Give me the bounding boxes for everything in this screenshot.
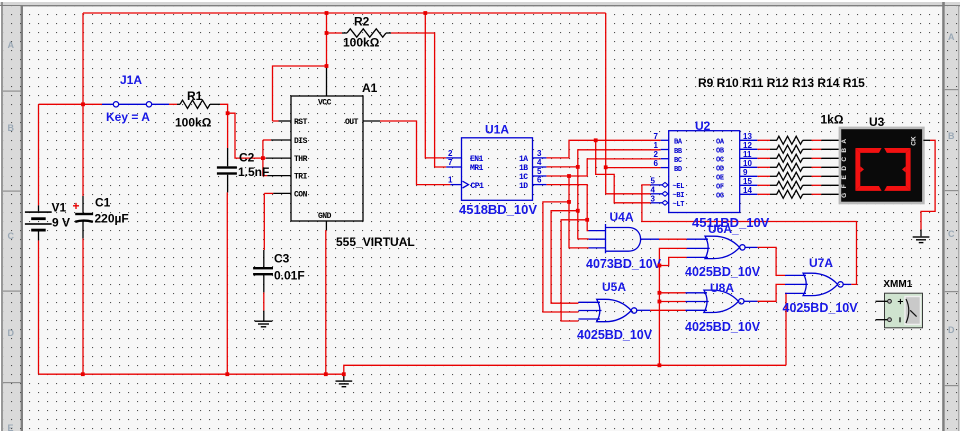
svg-text:OF: OF: [716, 184, 724, 192]
svg-text:OC: OC: [716, 157, 724, 165]
svg-text:U1A: U1A: [485, 123, 509, 137]
svg-text:4025BD_10V: 4025BD_10V: [685, 320, 761, 334]
svg-text:GND: GND: [318, 212, 332, 221]
svg-text:BC: BC: [674, 157, 682, 165]
multimeter XMM1: [876, 279, 923, 328]
wire 1B branch down to U4A input2: [578, 167, 589, 239]
gate U5A 4025BD NOR: [577, 280, 653, 342]
wire 1B to BB: [546, 150, 660, 167]
svg-text:CON: CON: [294, 191, 308, 200]
svg-text:BB: BB: [674, 148, 683, 156]
capacitor C1: [73, 196, 129, 239]
right ruler strip: [942, 2, 959, 431]
svg-text:4518BD_10V: 4518BD_10V: [459, 202, 537, 217]
svg-text:OD: OD: [716, 166, 724, 174]
ground below U3: [913, 230, 930, 244]
svg-text:U4A: U4A: [610, 210, 634, 224]
svg-text:220µF: 220µF: [95, 212, 129, 226]
svg-text:U3: U3: [869, 115, 885, 129]
svg-text:6: 6: [654, 159, 659, 168]
svg-text:~EL: ~EL: [673, 183, 685, 191]
svg-text:THR: THR: [294, 155, 308, 164]
svg-text:V1: V1: [52, 201, 67, 215]
resistor R2: [342, 15, 391, 50]
svg-text:OG: OG: [716, 193, 724, 201]
wire 1B loop to U5A input1: [551, 211, 578, 304]
wire ground bus step and right section: [344, 365, 786, 374]
wire trunk to U8A input2: [659, 301, 685, 303]
svg-text:DIS: DIS: [294, 137, 308, 146]
svg-text:1: 1: [448, 176, 453, 185]
svg-text:7: 7: [448, 158, 453, 167]
svg-text:3: 3: [651, 194, 656, 203]
svg-text:B: B: [841, 148, 848, 153]
wire CON to C3: [264, 193, 273, 250]
svg-text:0.01F: 0.01F: [274, 269, 305, 283]
svg-text:~BI: ~BI: [673, 192, 685, 200]
op-amp/timer A1 555 box: [266, 67, 415, 250]
wire U6A out to U7A input1: [757, 247, 785, 275]
svg-text:F: F: [841, 184, 848, 188]
svg-text:BD: BD: [674, 166, 682, 174]
svg-text:G: G: [841, 193, 848, 198]
svg-text:15: 15: [743, 177, 752, 186]
svg-text:100kΩ: 100kΩ: [343, 36, 380, 50]
svg-text:2: 2: [448, 149, 453, 158]
svg-text:1B: 1B: [519, 164, 528, 173]
resistor R1: [169, 89, 220, 130]
wire OUT to CP1: [380, 121, 450, 185]
svg-text:A: A: [841, 139, 848, 144]
top ruler bar: [0, 0, 960, 6]
wire R1 right to C2/THR junction: [220, 104, 266, 158]
resistors R9-R15 ladder: [698, 76, 865, 198]
svg-text:1A: 1A: [519, 155, 528, 164]
svg-text:OA: OA: [716, 139, 725, 147]
svg-text:C2: C2: [239, 151, 255, 165]
svg-text:6: 6: [537, 176, 542, 185]
gate U6A 4025BD NOR: [685, 222, 761, 279]
wire top VCC rail: [83, 12, 606, 14]
svg-text:3: 3: [537, 149, 542, 158]
wire segments U2 outputs to R ladder and display: [757, 140, 821, 194]
ground below C3: [255, 321, 273, 328]
svg-text:555_VIRTUAL: 555_VIRTUAL: [336, 235, 415, 249]
svg-text:A1: A1: [362, 81, 378, 95]
svg-text:C1: C1: [95, 196, 111, 210]
svg-text:14: 14: [743, 186, 752, 195]
wire C3 lower red segment: [263, 292, 265, 310]
svg-text:U7A: U7A: [809, 256, 833, 270]
svg-text:RST: RST: [294, 118, 308, 127]
svg-text:7: 7: [654, 132, 659, 141]
svg-text:OUT: OUT: [345, 118, 359, 127]
wire R2 right to MR1: [391, 33, 446, 167]
svg-text:4073BD_10V: 4073BD_10V: [586, 257, 662, 271]
display U3 seven-segment: [840, 115, 930, 203]
capacitor C2: [217, 148, 269, 192]
wire 1C branch down to U4A input3: [569, 176, 589, 248]
wire rail drop to BD and ~BI: [606, 13, 661, 194]
svg-text:C: C: [841, 157, 848, 162]
svg-text:R1: R1: [187, 89, 203, 103]
svg-text:1kΩ: 1kΩ: [821, 113, 844, 127]
gate U4A 4073BD AND: [586, 210, 662, 271]
wire 1D to U4A input1: [546, 185, 588, 231]
wire 1C to BC: [546, 159, 660, 176]
svg-text:D: D: [841, 166, 848, 171]
svg-text:4: 4: [651, 185, 656, 194]
svg-text:+: +: [73, 199, 80, 213]
svg-text:U2: U2: [695, 119, 711, 133]
svg-text:VCC: VCC: [318, 99, 332, 108]
wire U7A out to ~EL feedback: [642, 185, 857, 285]
gate U7A 4025BD NOR: [783, 256, 859, 315]
svg-text:U8A: U8A: [710, 281, 734, 295]
wire 1A to BA: [546, 140, 660, 158]
ground on bus: [336, 374, 353, 387]
svg-text:1.5nF: 1.5nF: [238, 165, 269, 179]
left ruler strip: [0, 2, 23, 431]
capacitor C3: [253, 250, 305, 321]
svg-text:OB: OB: [716, 148, 725, 156]
svg-text:MR1: MR1: [470, 164, 484, 173]
wire ground bus left section: [39, 373, 344, 375]
svg-text:CK: CK: [911, 136, 918, 146]
wire rail to EN1: [425, 13, 446, 158]
wire C2 bottom to bus: [226, 192, 228, 374]
svg-text:9 V: 9 V: [52, 216, 70, 230]
wire U4A out to U6A input1: [659, 238, 687, 240]
wire R2 left branch: [327, 32, 343, 34]
svg-text:OE: OE: [716, 175, 724, 183]
gate U8A 4025BD NOR: [685, 281, 761, 334]
svg-text:5: 5: [651, 176, 656, 185]
svg-text:4025BD_10V: 4025BD_10V: [685, 265, 761, 279]
wire 1C loop to U5A input2: [543, 202, 579, 312]
switch J1A: [102, 73, 169, 124]
wire V1 top to switch row: [39, 104, 103, 205]
wire V1 bottom to ground bus: [38, 240, 40, 374]
wire U5A out to U8A input3: [650, 309, 685, 311]
svg-text:C3: C3: [274, 252, 290, 266]
wire bus riser to U7A input3: [784, 293, 787, 365]
counter U1A 4518BD box: [446, 123, 546, 218]
svg-text:Key = A: Key = A: [106, 110, 150, 124]
svg-text:2: 2: [654, 150, 659, 159]
svg-text:R2: R2: [354, 15, 370, 29]
svg-text:10: 10: [743, 159, 752, 168]
wire common trunk to U6A inputs: [659, 248, 686, 365]
wire rail to J1A node: [82, 13, 84, 104]
wire 1D loop to U5A input3: [561, 220, 587, 321]
svg-text:9: 9: [743, 168, 748, 177]
svg-text:J1A: J1A: [120, 73, 142, 87]
wire BA branch to ~LT: [596, 140, 651, 203]
decoder U2 4511BD box: [651, 119, 770, 230]
svg-text:4: 4: [537, 158, 542, 167]
svg-text:EN1: EN1: [470, 155, 484, 164]
svg-text:R9 R10 R11 R12 R13 R14 R15: R9 R10 R11 R12 R13 R14 R15: [698, 76, 865, 90]
svg-text:U6A_: U6A_: [708, 222, 739, 236]
svg-text:4025BD_10V: 4025BD_10V: [783, 301, 859, 315]
wire U8A out to U7A input2: [757, 284, 785, 301]
svg-text:11: 11: [743, 150, 752, 159]
wire U3 CK to ground: [921, 140, 935, 229]
svg-text:E: E: [841, 174, 848, 179]
svg-text:1: 1: [654, 141, 659, 150]
svg-text:12: 12: [743, 141, 752, 150]
wire trunk to U8A input1: [659, 292, 685, 294]
svg-text:100kΩ: 100kΩ: [175, 116, 212, 130]
wire VCC drop: [326, 13, 328, 67]
svg-text:~LT: ~LT: [673, 201, 685, 209]
svg-text:BA: BA: [674, 139, 683, 147]
wire DIS THR TRI tie: [263, 140, 271, 176]
svg-text:4025BD_10V: 4025BD_10V: [577, 328, 653, 342]
wire C1 top branch: [82, 104, 84, 196]
battery V1: [25, 201, 70, 241]
svg-text:13: 13: [743, 132, 752, 141]
svg-text:TRI: TRI: [294, 173, 308, 182]
svg-text:1D: 1D: [519, 182, 528, 191]
svg-text:XMM1: XMM1: [883, 279, 912, 290]
wire RST to VCC rail: [273, 66, 327, 121]
svg-text:CP1: CP1: [471, 182, 485, 191]
wire C1 bottom to bus: [82, 238, 84, 374]
svg-text:U5A: U5A: [602, 280, 626, 294]
wire 555 GND to bus: [325, 230, 327, 374]
